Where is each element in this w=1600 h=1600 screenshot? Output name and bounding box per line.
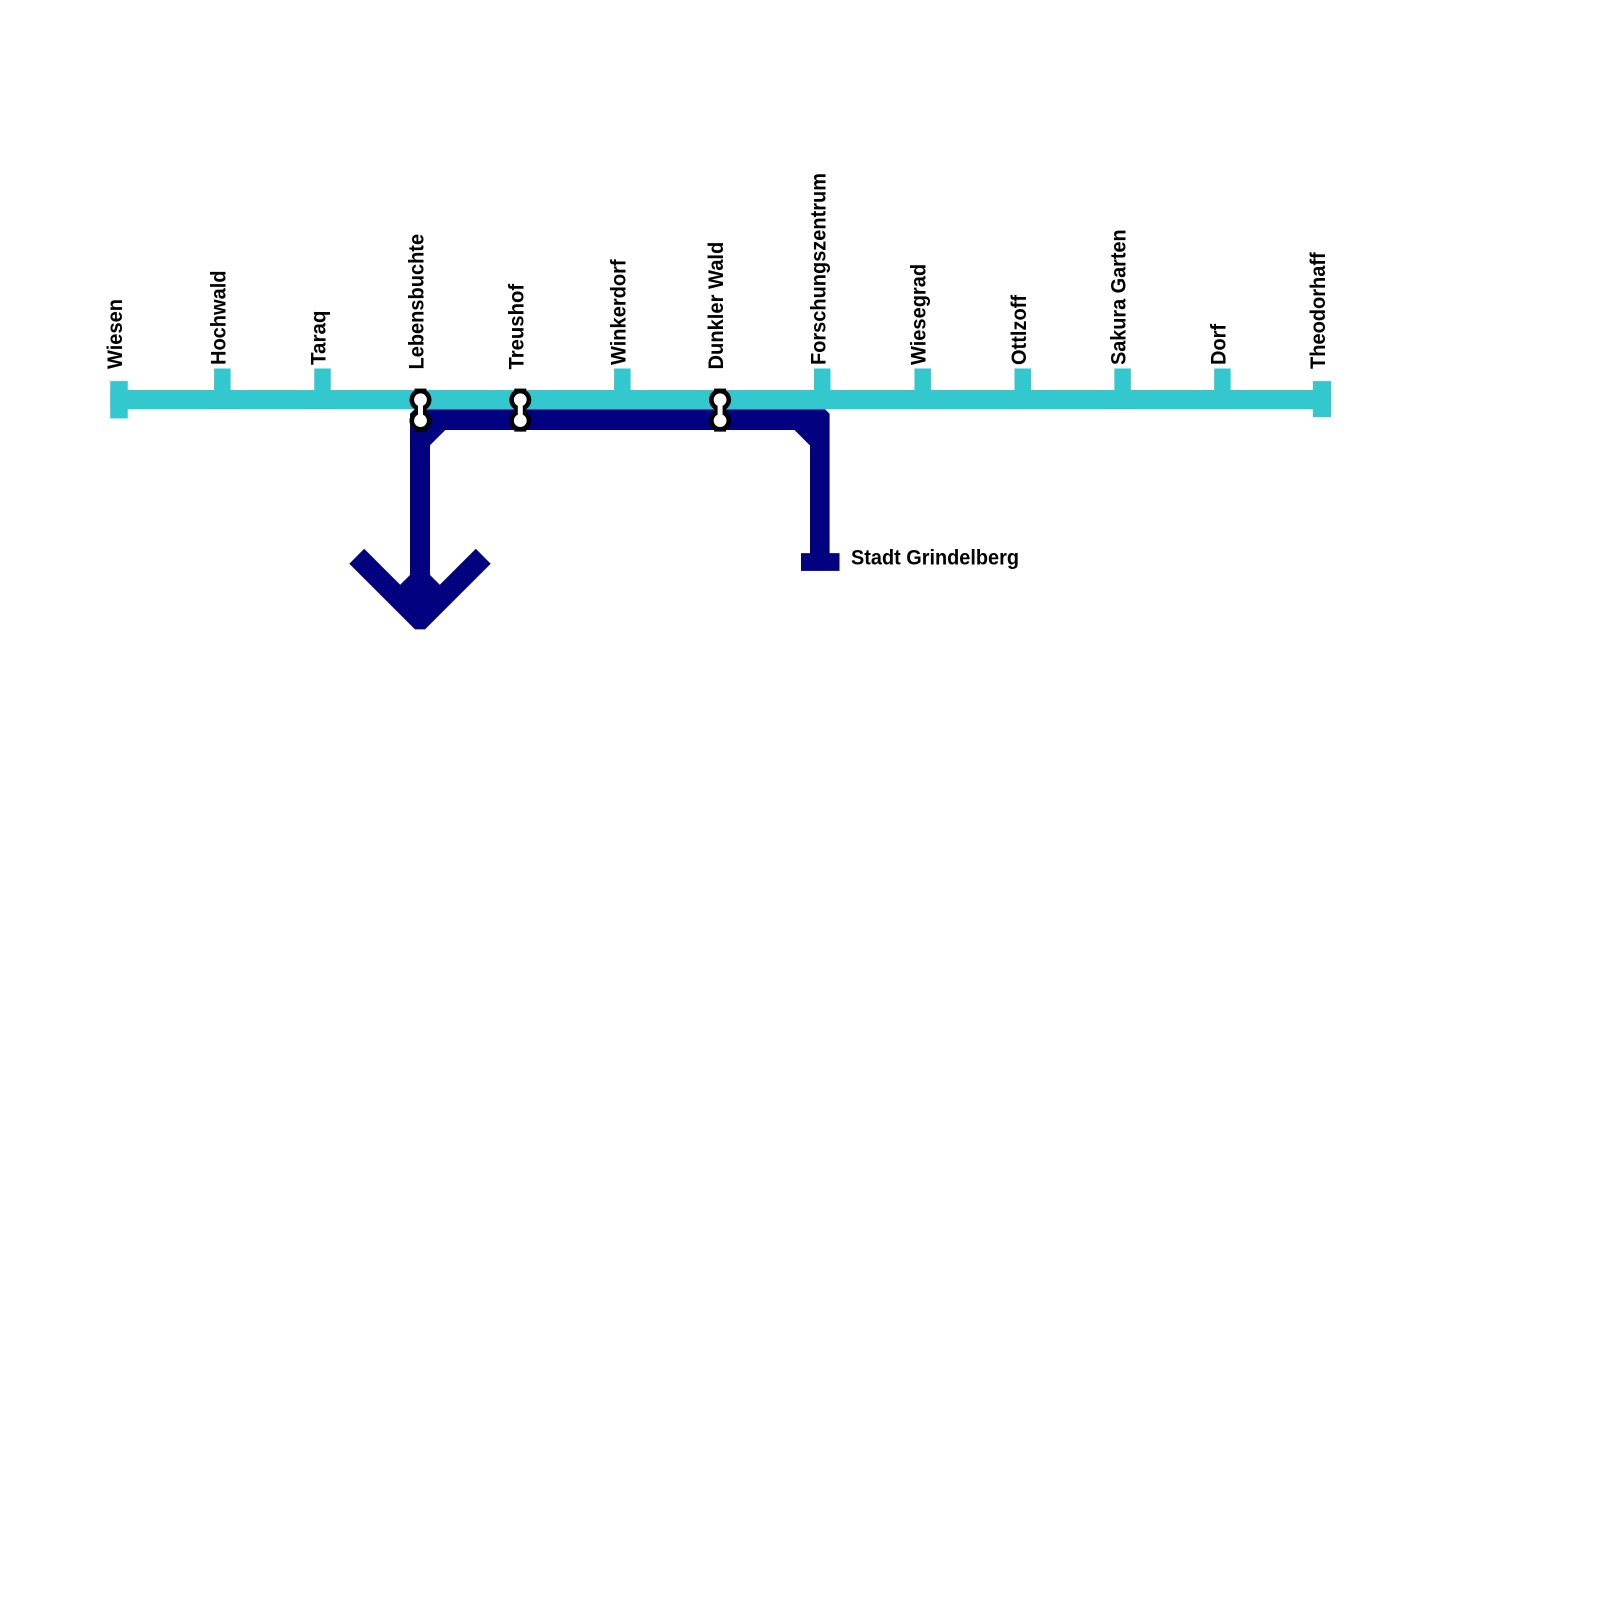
interchange symbol Treushof xyxy=(509,389,531,432)
svg-text:Taraq: Taraq xyxy=(308,311,331,366)
line L1 (turquoise main line) xyxy=(110,390,1331,409)
svg-text:Stadt Grindelberg: Stadt Grindelberg xyxy=(851,547,1019,570)
station Taraq tick xyxy=(314,369,331,394)
svg-text:Theodorhaff: Theodorhaff xyxy=(1307,251,1330,369)
svg-text:Wiesegrad: Wiesegrad xyxy=(908,264,931,365)
svg-text:Lebensbuchte: Lebensbuchte xyxy=(406,234,429,370)
svg-text:Wiesen: Wiesen xyxy=(104,299,127,369)
interchange symbol Lebensbuchte xyxy=(410,389,432,432)
svg-text:Winkerdorf: Winkerdorf xyxy=(607,258,630,365)
svg-text:Forschungszentrum: Forschungszentrum xyxy=(807,173,830,365)
station Forschungszentrum tick xyxy=(814,369,831,394)
svg-text:Treushof: Treushof xyxy=(505,283,528,370)
svg-text:Sakura Garten: Sakura Garten xyxy=(1108,229,1131,365)
svg-text:Dunkler Wald: Dunkler Wald xyxy=(705,242,728,370)
line L2 (navy branch route) xyxy=(349,409,839,629)
svg-text:Dorf: Dorf xyxy=(1207,323,1230,365)
terminus bar Stadt Grindelberg (navy) xyxy=(801,553,840,571)
station Ottlzoff tick xyxy=(1015,369,1032,394)
station Winkerdorf tick xyxy=(614,369,631,394)
station Wiesen terminus bar xyxy=(110,381,128,418)
station Wiesegrad tick xyxy=(914,369,931,394)
station Sakura Garten tick xyxy=(1114,369,1131,394)
station Theodorhaff terminus bar xyxy=(1313,381,1331,417)
interchange symbol Dunkler Wald xyxy=(709,389,731,432)
station Dorf tick xyxy=(1214,369,1231,394)
station Hochwald tick xyxy=(214,369,231,394)
svg-text:Hochwald: Hochwald xyxy=(207,271,230,366)
svg-text:Ottlzoff: Ottlzoff xyxy=(1008,294,1031,365)
